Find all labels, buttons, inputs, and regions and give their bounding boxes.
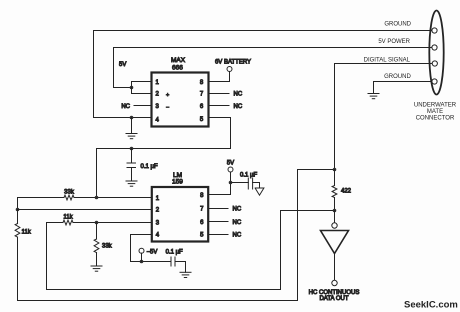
node pin1 junction with MAX output <box>95 196 99 200</box>
node pin8 cap junction <box>229 181 233 185</box>
svg-text:5V: 5V <box>227 161 234 167</box>
svg-text:422: 422 <box>341 189 352 195</box>
ground under C1 <box>126 181 137 186</box>
wire LM159 pin6 NC <box>208 221 228 223</box>
svg-text:0.1 µF: 0.1 µF <box>240 173 257 179</box>
wire MAX666 pin5 output down and across to LM159 pin1 net <box>97 118 231 198</box>
resistor R5 422 vertical <box>332 170 352 211</box>
svg-text:−5V: −5V <box>147 249 158 255</box>
pin digital signal <box>432 61 437 66</box>
ground under MAX666 pin4 <box>126 118 137 139</box>
svg-text:CONNECTOR: CONNECTOR <box>416 116 455 122</box>
wire ground top line from MAX666 pin4 net to connector <box>94 31 432 118</box>
ground chassis triangle under C2 <box>255 183 264 196</box>
svg-text:7: 7 <box>200 92 204 98</box>
svg-text:NC: NC <box>233 220 242 226</box>
svg-text:8: 8 <box>200 80 204 86</box>
resistor R1 33k <box>64 195 74 200</box>
svg-text:NC: NC <box>121 104 130 110</box>
node -5V junction <box>140 260 144 264</box>
svg-text:UNDERWATER: UNDERWATER <box>414 103 457 109</box>
wire pin2 feedback loop to digital signal node <box>18 170 335 301</box>
svg-text:5V: 5V <box>119 62 126 68</box>
svg-text:+: + <box>166 93 169 99</box>
wire LM159 pin3 line <box>47 222 64 224</box>
node pin4 junction <box>130 116 134 120</box>
wire LM159 pin4 to -5V <box>131 235 172 262</box>
IC U1 MAX666 <box>152 73 209 127</box>
node above R5 <box>333 168 337 172</box>
svg-text:GROUND: GROUND <box>384 74 411 80</box>
wire 5V power line from connector to MAX666 pins 1-2 <box>114 48 432 88</box>
connector J1 underwater mate <box>429 11 443 95</box>
wire bracket to pin1 and pin2 <box>132 82 152 94</box>
wire MAX666 pin7 NC <box>208 93 229 95</box>
wire MAX666 pin4 ground wire <box>94 117 152 119</box>
svg-text:DATA OUT: DATA OUT <box>319 296 348 302</box>
ground under R4 <box>91 266 102 271</box>
svg-text:4: 4 <box>156 233 160 239</box>
IC U2 LM159 <box>152 187 208 242</box>
wire digital signal from connector down to comparator <box>335 64 432 170</box>
terminal 5V <box>228 167 233 172</box>
svg-text:0.1 µF: 0.1 µF <box>166 249 183 255</box>
wire LM159 pin7 NC <box>208 208 228 210</box>
svg-text:NC: NC <box>233 233 242 239</box>
svg-text:SeekIC.com: SeekIC.com <box>404 300 458 311</box>
wire MAX666 pin6 NC <box>208 105 229 107</box>
wire battery to MAX666 pin8 <box>208 72 229 82</box>
svg-text:5V POWER: 5V POWER <box>378 39 410 45</box>
resistor R2 11k vertical <box>15 210 32 301</box>
svg-text:1: 1 <box>156 196 160 202</box>
svg-text:2: 2 <box>156 208 160 214</box>
terminal HC continuous data out <box>332 280 337 285</box>
node cap C1 junction <box>130 147 134 151</box>
svg-text:6V BATTERY: 6V BATTERY <box>215 60 251 66</box>
svg-text:33k: 33k <box>64 190 75 196</box>
wire LM159 pin1 input line <box>18 197 65 199</box>
svg-text:MATE: MATE <box>427 109 443 115</box>
ground under C3 <box>180 272 191 277</box>
wire buffer output <box>334 254 336 281</box>
wire pin3 feedback loop to comparator input node <box>47 211 335 290</box>
svg-text:6: 6 <box>200 104 204 110</box>
svg-text:666: 666 <box>172 65 183 72</box>
svg-text:159: 159 <box>172 179 183 186</box>
pin ground <box>432 28 437 33</box>
wire connector lower ground <box>374 82 432 94</box>
svg-text:−: − <box>166 105 169 111</box>
svg-text:MAX: MAX <box>171 57 186 64</box>
ground under connector <box>368 94 379 99</box>
resistor R3 11k <box>63 220 73 225</box>
svg-text:3: 3 <box>156 104 160 110</box>
node pins1-2 junction <box>130 86 134 90</box>
resistor R4 33k vertical to ground <box>94 223 113 267</box>
svg-text:5: 5 <box>200 117 204 123</box>
node below R5 <box>333 209 337 213</box>
svg-text:6: 6 <box>200 220 204 226</box>
buffer U3 inverter triangle <box>334 211 336 223</box>
node pin3 junction <box>95 221 99 225</box>
capacitor C3 0.1uF <box>171 257 186 272</box>
wire NC to MAX666 pin3 <box>134 105 152 107</box>
wire pin1 to pin2 link <box>17 198 19 210</box>
svg-text:11k: 11k <box>22 230 32 236</box>
svg-text:11k: 11k <box>63 215 73 221</box>
node pin2 junction <box>16 208 20 212</box>
svg-text:2: 2 <box>156 92 160 98</box>
svg-text:7: 7 <box>200 207 204 213</box>
wire LM159 pin8 to 5V terminal <box>208 172 230 195</box>
svg-text:DIGITAL SIGNAL: DIGITAL SIGNAL <box>364 58 411 64</box>
svg-text:NC: NC <box>234 92 243 98</box>
pin ground lower <box>432 79 437 84</box>
wire LM159 pin2 line <box>18 209 152 211</box>
svg-text:8: 8 <box>200 193 204 199</box>
svg-text:0.1 µF: 0.1 µF <box>141 164 158 170</box>
capacitor C1 0.1uF <box>127 149 136 182</box>
svg-text:1: 1 <box>156 80 160 86</box>
capacitor C2 0.1uF <box>231 178 260 189</box>
wire LM159 pin5 NC <box>208 234 228 236</box>
svg-text:GROUND: GROUND <box>384 22 411 28</box>
svg-text:33k: 33k <box>102 244 113 250</box>
pin 5V power <box>432 45 437 50</box>
svg-text:3: 3 <box>156 221 160 227</box>
svg-text:NC: NC <box>233 207 242 213</box>
terminal -5V <box>139 248 144 253</box>
svg-text:4: 4 <box>156 118 160 124</box>
svg-text:NC: NC <box>234 104 243 110</box>
svg-text:5: 5 <box>200 233 204 239</box>
